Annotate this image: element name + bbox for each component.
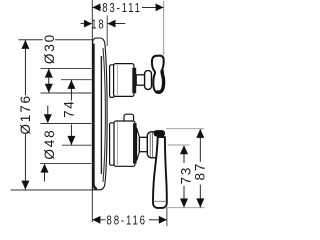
extension line top of D30: [41, 67, 92, 69]
extension line top of D48: [41, 123, 92, 125]
lever arm: [153, 137, 167, 208]
wall line: [91, 0, 93, 222]
top cartridge sleeve flange: [110, 65, 115, 98]
dimension 83-111: [92, 1, 163, 15]
svg-text:18: 18: [91, 18, 105, 32]
extension line top of 87: [166, 128, 204, 130]
svg-text:88-116: 88-116: [107, 214, 147, 228]
bottom sleeve flange: [110, 123, 115, 165]
extension line bottom of D48: [40, 162, 92, 164]
extension line right of 18: [106, 16, 108, 47]
svg-text:73: 73: [179, 166, 194, 185]
dimension 18: [81, 18, 126, 32]
svg-text:Ø176: Ø176: [18, 94, 33, 134]
escutcheon plate D176: [93, 38, 108, 190]
safety override button: [124, 114, 134, 122]
extension line right of 83-111 (front of cross handle): [163, 1, 165, 55]
extension line top of 73: [168, 144, 190, 146]
bottom sleeve shading: [117, 122, 119, 165]
svg-text:87: 87: [193, 162, 208, 181]
top handle hub: [145, 71, 152, 90]
extension line top of D176: [18, 39, 94, 41]
dimension D30: [42, 33, 57, 93]
bottom bevel cone: [137, 128, 140, 161]
top handle stem: [136, 75, 145, 85]
extension line bottom of D176: [11, 189, 93, 191]
svg-text:Ø30: Ø30: [42, 33, 57, 64]
extension line bottom shared 73/87: [165, 207, 205, 209]
cross handle (side view): [152, 56, 164, 93]
lever end cap seam: [153, 200, 166, 202]
lever hub: [147, 132, 158, 158]
extension line bottom of D30: [41, 92, 92, 94]
top sleeve front rim D30: [132, 68, 136, 93]
svg-text:Ø48: Ø48: [42, 129, 57, 160]
dimension 74: [62, 80, 77, 145]
lever top knob: [154, 130, 166, 136]
bottom sleeve front rim D48: [133, 123, 137, 163]
top sleeve shading: [117, 65, 119, 95]
bottom thermostat sleeve: [114, 121, 135, 166]
dimension D48 (arrows outside): [41, 106, 58, 182]
extension line bottom of 74 (lower axis): [62, 144, 92, 146]
svg-text:74: 74: [62, 99, 77, 118]
extension line top of 74 (upper axis): [61, 79, 92, 81]
top cartridge sleeve: [114, 64, 134, 97]
dimension 73: [179, 145, 194, 207]
extension line right of 88-116: [166, 208, 168, 226]
dimension 87: [193, 129, 208, 208]
bottom handle stem: [139, 137, 148, 151]
dimension 88-116: [92, 214, 166, 228]
svg-text:83-111: 83-111: [102, 2, 142, 16]
dimension D176: [18, 40, 33, 190]
